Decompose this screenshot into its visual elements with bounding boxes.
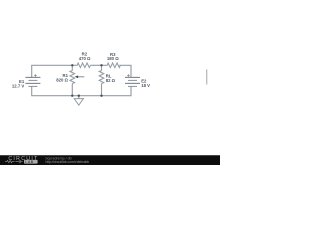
svg-text:180 Ω: 180 Ω — [107, 56, 119, 61]
node dot R1 bottom — [71, 95, 73, 97]
svg-text:LAB: LAB — [25, 160, 33, 164]
svg-text:12.7 V: 12.7 V — [12, 83, 25, 88]
label E2 value — [141, 79, 150, 89]
logo LAB text — [24, 160, 38, 164]
battery E1 plus sign — [34, 74, 37, 77]
ground — [78, 96, 80, 99]
svg-text:http:⁄⁄circuitlab.com⁄c⁄debrab: http:⁄⁄circuitlab.com⁄c⁄debrabk — [46, 160, 90, 164]
resistor R1 (rheostat) vertical — [71, 65, 73, 70]
node dot R1 top — [71, 64, 73, 66]
resistor R2 zigzag — [77, 63, 90, 68]
wire bottom: E1 to E2 — [32, 86, 131, 95]
svg-text:18 V: 18 V — [141, 83, 150, 88]
label RL value — [106, 74, 116, 83]
svg-text:470 Ω: 470 Ω — [79, 56, 91, 61]
svg-text:82 Ω: 82 Ω — [106, 78, 116, 83]
label E1 value — [12, 79, 25, 88]
watermark bar — [0, 155, 220, 165]
wire top: RL top to R3 left lead — [102, 64, 108, 66]
node dot ground — [78, 95, 80, 97]
label R3 value — [107, 52, 119, 61]
resistor RL vertical — [101, 65, 103, 70]
wire top left: E1 to R1 top — [32, 65, 73, 77]
wire top: R2 right lead to RL top — [90, 64, 101, 66]
R1 wiper arrow — [78, 76, 85, 78]
svg-text:820 Ω: 820 Ω — [56, 77, 68, 82]
label R1 value — [56, 73, 68, 82]
resistor R3 zigzag — [107, 63, 120, 68]
node dot RL bottom — [100, 95, 102, 97]
logo zigzag + capacitor — [5, 160, 23, 163]
battery E2 plus sign — [127, 74, 130, 77]
battery E2 — [125, 77, 140, 86]
label R2 value — [79, 52, 91, 62]
scrollbar artifact line — [206, 69, 208, 84]
node dot RL top — [100, 64, 102, 66]
wire top right: R3 to E2 corner — [119, 65, 131, 77]
wire top: R1 top to R2 left lead — [72, 64, 77, 66]
battery E1 — [25, 77, 40, 86]
